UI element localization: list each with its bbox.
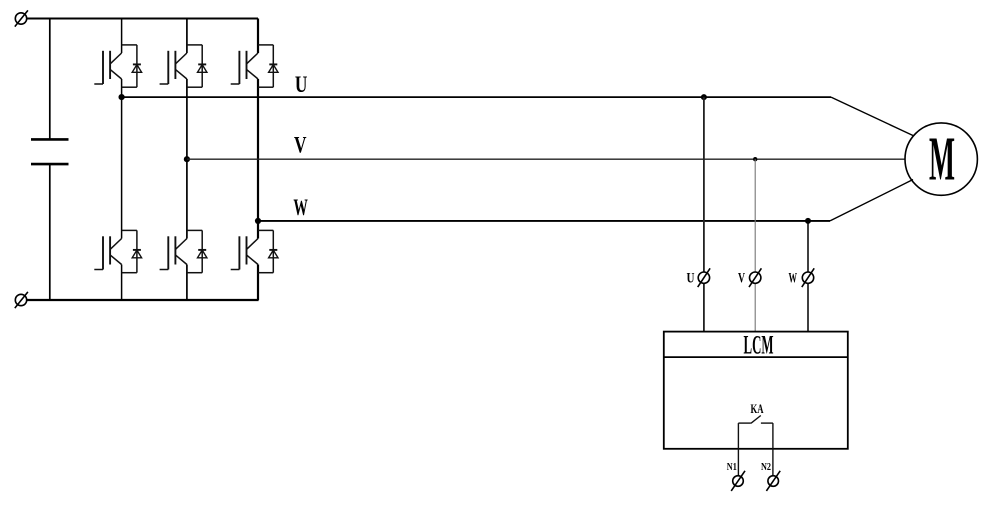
svg-text:V: V — [294, 133, 307, 158]
wire: U tap vertical to LCM — [703, 97, 705, 332]
svg-text:M: M — [929, 126, 955, 194]
svg-text:V: V — [738, 271, 745, 287]
wire: phase leg 1 vertical (emitter to bottom bus) — [121, 265, 123, 301]
wire: bottom DC bus — [27, 299, 259, 301]
terminal N2 Ø — [766, 471, 780, 491]
wire: KA right lead down to N2 — [772, 423, 774, 476]
wire: phase leg 1 vertical (mid, through node U) — [121, 79, 123, 239]
svg-text:N1: N1 — [727, 462, 737, 473]
svg-text:N2: N2 — [761, 462, 771, 473]
svg-text:W: W — [293, 195, 308, 220]
wire: V tap vertical to LCM — [754, 159, 756, 331]
terminal VØ on V tap — [749, 268, 761, 287]
terminal UØ on U tap — [698, 268, 710, 287]
IGBT Q3 (phase V high side) with freewheel diode — [160, 45, 207, 87]
terminal DC+ (top-left, circle with slash) — [15, 10, 28, 26]
wire: phase V horizontal into motor — [187, 158, 905, 160]
junction node W (leg 3) — [255, 218, 261, 224]
wire: top DC bus — [27, 18, 258, 20]
wire: KA left lead down to N1 — [737, 423, 739, 476]
wire: phase leg 1 vertical (collector feed, top) — [121, 19, 123, 54]
junction node U (leg 1) — [119, 94, 125, 100]
wire: phase leg 3 vertical (mid, through node W) — [257, 79, 259, 239]
wire: capacitor top lead — [49, 19, 51, 140]
junction dot V tap — [753, 157, 757, 161]
wire: phase leg 3 vertical (emitter to bottom bus) — [257, 265, 259, 301]
junction dot U tap — [701, 94, 707, 100]
wire: W tap vertical to LCM — [807, 221, 809, 332]
wire: phase leg 2 vertical (collector feed, top) — [186, 19, 188, 54]
svg-text:W: W — [788, 271, 797, 287]
terminal N1 Ø — [731, 471, 745, 491]
terminal DC- (bottom-left, circle with slash) — [15, 292, 28, 308]
svg-text:LCM: LCM — [744, 330, 774, 359]
wire: phase W horizontal — [258, 220, 830, 222]
IGBT Q2 (phase U low side) with freewheel diode — [94, 230, 141, 272]
wire: phase leg 2 vertical (mid, through node V) — [186, 79, 188, 239]
LCM title separator line — [664, 356, 848, 358]
wire: phase leg 3 vertical (collector feed, top) — [257, 19, 259, 54]
svg-text:U: U — [687, 271, 695, 287]
IGBT Q1 (phase U high side) with freewheel diode — [94, 45, 141, 87]
junction node V (leg 2) — [184, 156, 190, 162]
wire: phase U angled into motor — [831, 97, 914, 136]
IGBT Q6 (phase W low side) with freewheel diode — [231, 230, 278, 272]
wire: phase leg 2 vertical (emitter to bottom bus) — [186, 265, 188, 301]
wire: phase W angled into motor — [830, 180, 913, 221]
LCM block box — [664, 332, 848, 449]
wire: phase U horizontal — [122, 96, 831, 98]
wire: capacitor bottom lead — [49, 164, 51, 300]
svg-text:U: U — [295, 72, 308, 97]
relay contact KA (normally open) — [738, 416, 773, 424]
IGBT Q4 (phase V low side) with freewheel diode — [160, 230, 207, 272]
IGBT Q5 (phase W high side) with freewheel diode — [231, 45, 278, 87]
capacitor C (DC bus) — [31, 139, 69, 164]
svg-text:KA: KA — [751, 402, 764, 416]
motor M1 circle — [905, 123, 977, 195]
terminal WØ on W tap — [802, 268, 814, 287]
junction dot W tap — [805, 218, 811, 224]
